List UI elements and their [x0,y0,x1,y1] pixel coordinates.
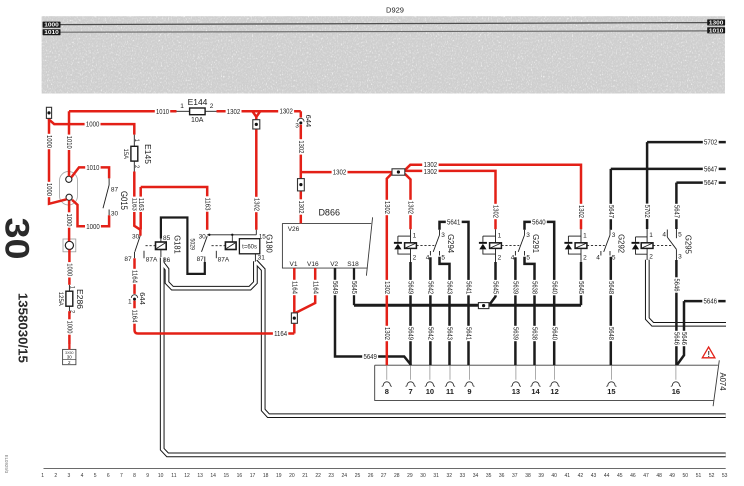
svg-text:18: 18 [263,473,269,479]
svg-text:A074: A074 [718,373,727,392]
svg-text:1: 1 [498,232,502,239]
svg-text:87A: 87A [218,257,230,264]
svg-text:1302: 1302 [492,205,499,218]
svg-text:3: 3 [678,254,682,261]
svg-text:1010: 1010 [156,109,169,116]
svg-text:37: 37 [512,473,518,479]
svg-text:644: 644 [138,292,147,305]
svg-text:1164: 1164 [290,281,297,294]
svg-text:5641: 5641 [447,219,461,226]
svg-text:50: 50 [683,473,689,479]
svg-text:25: 25 [355,473,361,479]
svg-text:1302: 1302 [297,140,304,153]
svg-text:40: 40 [551,473,557,479]
svg-text:125A: 125A [57,292,64,307]
svg-text:1000: 1000 [44,23,59,29]
svg-text:5639: 5639 [512,327,519,340]
svg-text:2: 2 [498,255,502,262]
svg-text:12: 12 [184,473,190,479]
svg-text:87: 87 [197,256,205,263]
svg-text:1300: 1300 [709,20,724,26]
svg-text:28: 28 [394,473,400,479]
svg-text:!: ! [707,350,710,359]
svg-text:14: 14 [531,387,540,396]
svg-text:1302: 1302 [424,169,438,176]
svg-text:20: 20 [289,473,295,479]
svg-text:t=60s: t=60s [242,244,257,250]
svg-text:53: 53 [722,473,728,479]
svg-text:E286: E286 [75,289,85,309]
svg-text:26: 26 [368,473,374,479]
svg-text:5641: 5641 [465,281,472,294]
svg-text:3: 3 [612,232,616,239]
svg-text:5649: 5649 [407,281,414,294]
svg-text:52: 52 [709,473,715,479]
svg-text:8: 8 [133,473,136,479]
svg-text:5: 5 [526,255,530,262]
svg-text:D929: D929 [386,5,404,14]
svg-text:V16: V16 [307,261,319,268]
svg-text:5640: 5640 [550,327,557,340]
svg-text:1302: 1302 [383,327,390,340]
svg-text:1164: 1164 [131,270,138,283]
svg-text:1000: 1000 [65,214,72,227]
svg-text:5640: 5640 [532,219,546,226]
svg-text:10A: 10A [191,117,204,124]
svg-text:G294: G294 [446,234,456,253]
svg-text:2: 2 [583,255,587,262]
svg-text:10: 10 [158,473,164,479]
svg-text:2: 2 [649,254,653,261]
svg-text:33: 33 [460,473,466,479]
svg-text:21: 21 [302,473,308,479]
svg-text:5642: 5642 [427,327,434,340]
svg-text:30: 30 [0,218,36,260]
svg-text:1163: 1163 [130,198,137,211]
svg-text:10: 10 [426,387,434,396]
svg-text:2: 2 [413,255,417,262]
svg-text:43: 43 [591,473,597,479]
svg-text:5646: 5646 [673,279,680,292]
svg-text:5641: 5641 [465,327,472,340]
svg-text:G181: G181 [173,235,183,254]
svg-text:V26: V26 [288,226,300,233]
svg-text:4: 4 [81,473,84,479]
svg-text:1: 1 [41,473,44,479]
svg-text:5647: 5647 [673,205,680,218]
svg-text:32: 32 [447,473,453,479]
svg-text:S18: S18 [347,261,359,268]
svg-text:9: 9 [146,473,149,479]
svg-text:5645: 5645 [350,281,357,294]
svg-text:1163: 1163 [203,198,210,211]
svg-text:5638: 5638 [531,327,538,340]
svg-text:23: 23 [328,473,334,479]
svg-text:1302: 1302 [424,162,438,169]
svg-text:1302: 1302 [407,201,414,214]
svg-text:1: 1 [180,103,184,110]
svg-text:1302: 1302 [279,109,293,116]
svg-text:1010: 1010 [86,165,99,172]
svg-text:G291: G291 [531,234,541,253]
svg-text:1302: 1302 [252,198,259,211]
svg-text:1000: 1000 [86,224,100,231]
svg-text:E144: E144 [188,97,208,107]
svg-text:7: 7 [409,387,413,396]
svg-text:42: 42 [578,473,584,479]
svg-text:48: 48 [656,473,662,479]
svg-text:3: 3 [68,473,71,479]
svg-text:85: 85 [163,235,171,242]
svg-text:5646: 5646 [704,299,718,306]
svg-text:87A: 87A [146,257,158,264]
svg-text:14: 14 [210,473,216,479]
svg-text:31: 31 [433,473,439,479]
svg-text:6: 6 [107,473,110,479]
svg-text:4: 4 [596,255,600,262]
svg-text:1302: 1302 [383,201,390,214]
svg-text:36: 36 [499,473,505,479]
svg-text:5: 5 [612,255,616,262]
svg-text:5702: 5702 [704,140,718,147]
svg-text:V2: V2 [330,261,338,268]
svg-text:30: 30 [199,233,207,240]
svg-text:15: 15 [224,473,230,479]
svg-text:1164: 1164 [274,331,287,338]
svg-text:4: 4 [662,232,666,239]
svg-text:11: 11 [171,473,176,479]
svg-text:3: 3 [526,232,530,239]
svg-text:12: 12 [550,387,558,396]
svg-text:46: 46 [630,473,636,479]
svg-text:1163: 1163 [137,198,144,211]
svg-text:5639: 5639 [512,281,519,294]
svg-text:G015: G015 [119,191,129,210]
svg-text:16: 16 [672,387,680,396]
svg-text:87: 87 [124,256,132,263]
svg-text:38: 38 [525,473,531,479]
svg-text:30: 30 [132,233,140,240]
svg-text:49: 49 [669,473,675,479]
svg-text:1: 1 [413,232,417,239]
svg-text:11: 11 [446,387,454,396]
svg-text:G292: G292 [617,234,627,253]
svg-text:1164: 1164 [131,310,138,323]
svg-text:24: 24 [342,473,348,479]
svg-text:27: 27 [381,473,387,479]
svg-text:30: 30 [111,211,119,218]
svg-text:5: 5 [441,255,445,262]
svg-text:5646: 5646 [673,332,680,345]
svg-text:1000: 1000 [86,122,100,129]
svg-text:5649: 5649 [407,327,414,340]
svg-text:5648: 5648 [607,281,614,294]
svg-text:22: 22 [315,473,321,479]
svg-text:1000: 1000 [45,183,52,196]
svg-text:39: 39 [538,473,544,479]
svg-text:44: 44 [604,473,610,479]
svg-text:1302: 1302 [333,170,347,177]
svg-text:1000: 1000 [66,263,73,276]
svg-text:1010: 1010 [709,28,724,34]
svg-text:5646: 5646 [680,332,687,345]
svg-text:51: 51 [696,473,702,479]
svg-text:5647: 5647 [704,166,718,173]
svg-text:87: 87 [111,186,119,193]
svg-text:1: 1 [649,232,653,239]
svg-text:1010: 1010 [65,136,72,149]
svg-text:G295: G295 [684,235,694,254]
svg-text:41: 41 [565,473,571,479]
svg-text:5645: 5645 [492,281,499,294]
svg-text:5648: 5648 [607,327,614,340]
svg-text:1000: 1000 [45,135,52,148]
svg-text:5702: 5702 [643,205,650,218]
svg-text:D866: D866 [318,207,340,217]
svg-text:5649: 5649 [331,281,338,294]
svg-text:7: 7 [120,473,123,479]
svg-text:1010: 1010 [44,30,59,36]
svg-text:8: 8 [385,387,389,396]
svg-text:30: 30 [67,355,73,360]
svg-text:45: 45 [617,473,623,479]
svg-text:5643: 5643 [446,281,453,294]
svg-text:EL0929/3: EL0929/3 [4,455,9,474]
svg-text:5642: 5642 [427,281,434,294]
svg-text:1302: 1302 [383,281,390,294]
svg-text:17: 17 [250,473,256,479]
svg-text:35: 35 [486,473,492,479]
svg-text:19: 19 [276,473,282,479]
svg-text:644: 644 [304,115,313,128]
svg-text:1: 1 [128,298,132,305]
svg-text:3: 3 [441,232,445,239]
svg-text:15A: 15A [122,149,129,160]
svg-text:5640: 5640 [550,281,557,294]
svg-text:1: 1 [583,232,587,239]
svg-text:5647: 5647 [704,180,718,187]
svg-text:34: 34 [473,473,479,479]
svg-text:1302: 1302 [297,201,304,214]
svg-text:1358030/15: 1358030/15 [15,293,30,363]
svg-text:31: 31 [258,254,266,261]
svg-text:E145: E145 [143,144,153,164]
svg-text:1302: 1302 [577,205,584,218]
svg-text:5647: 5647 [607,205,614,218]
svg-text:5645: 5645 [577,281,584,294]
svg-text:2: 2 [210,103,214,110]
svg-text:13: 13 [197,473,203,479]
svg-text:47: 47 [643,473,649,479]
svg-text:5: 5 [678,232,682,239]
svg-text:5643: 5643 [446,327,453,340]
svg-text:29: 29 [407,473,413,479]
svg-text:5029: 5029 [188,238,195,250]
svg-text:15: 15 [607,387,615,396]
svg-text:3: 3 [295,123,299,130]
svg-text:G180: G180 [265,234,275,253]
svg-text:V1: V1 [290,261,298,268]
svg-text:9: 9 [467,387,471,396]
svg-text:16: 16 [237,473,243,479]
svg-text:30: 30 [420,473,426,479]
svg-text:1000: 1000 [66,321,73,334]
svg-text:1164: 1164 [311,281,318,294]
svg-text:2: 2 [54,473,57,479]
svg-text:86: 86 [163,257,171,264]
svg-text:5638: 5638 [531,281,538,294]
svg-text:5649: 5649 [363,354,377,361]
svg-text:13: 13 [512,387,520,396]
svg-text:5: 5 [94,473,97,479]
svg-text:1302: 1302 [227,109,241,116]
